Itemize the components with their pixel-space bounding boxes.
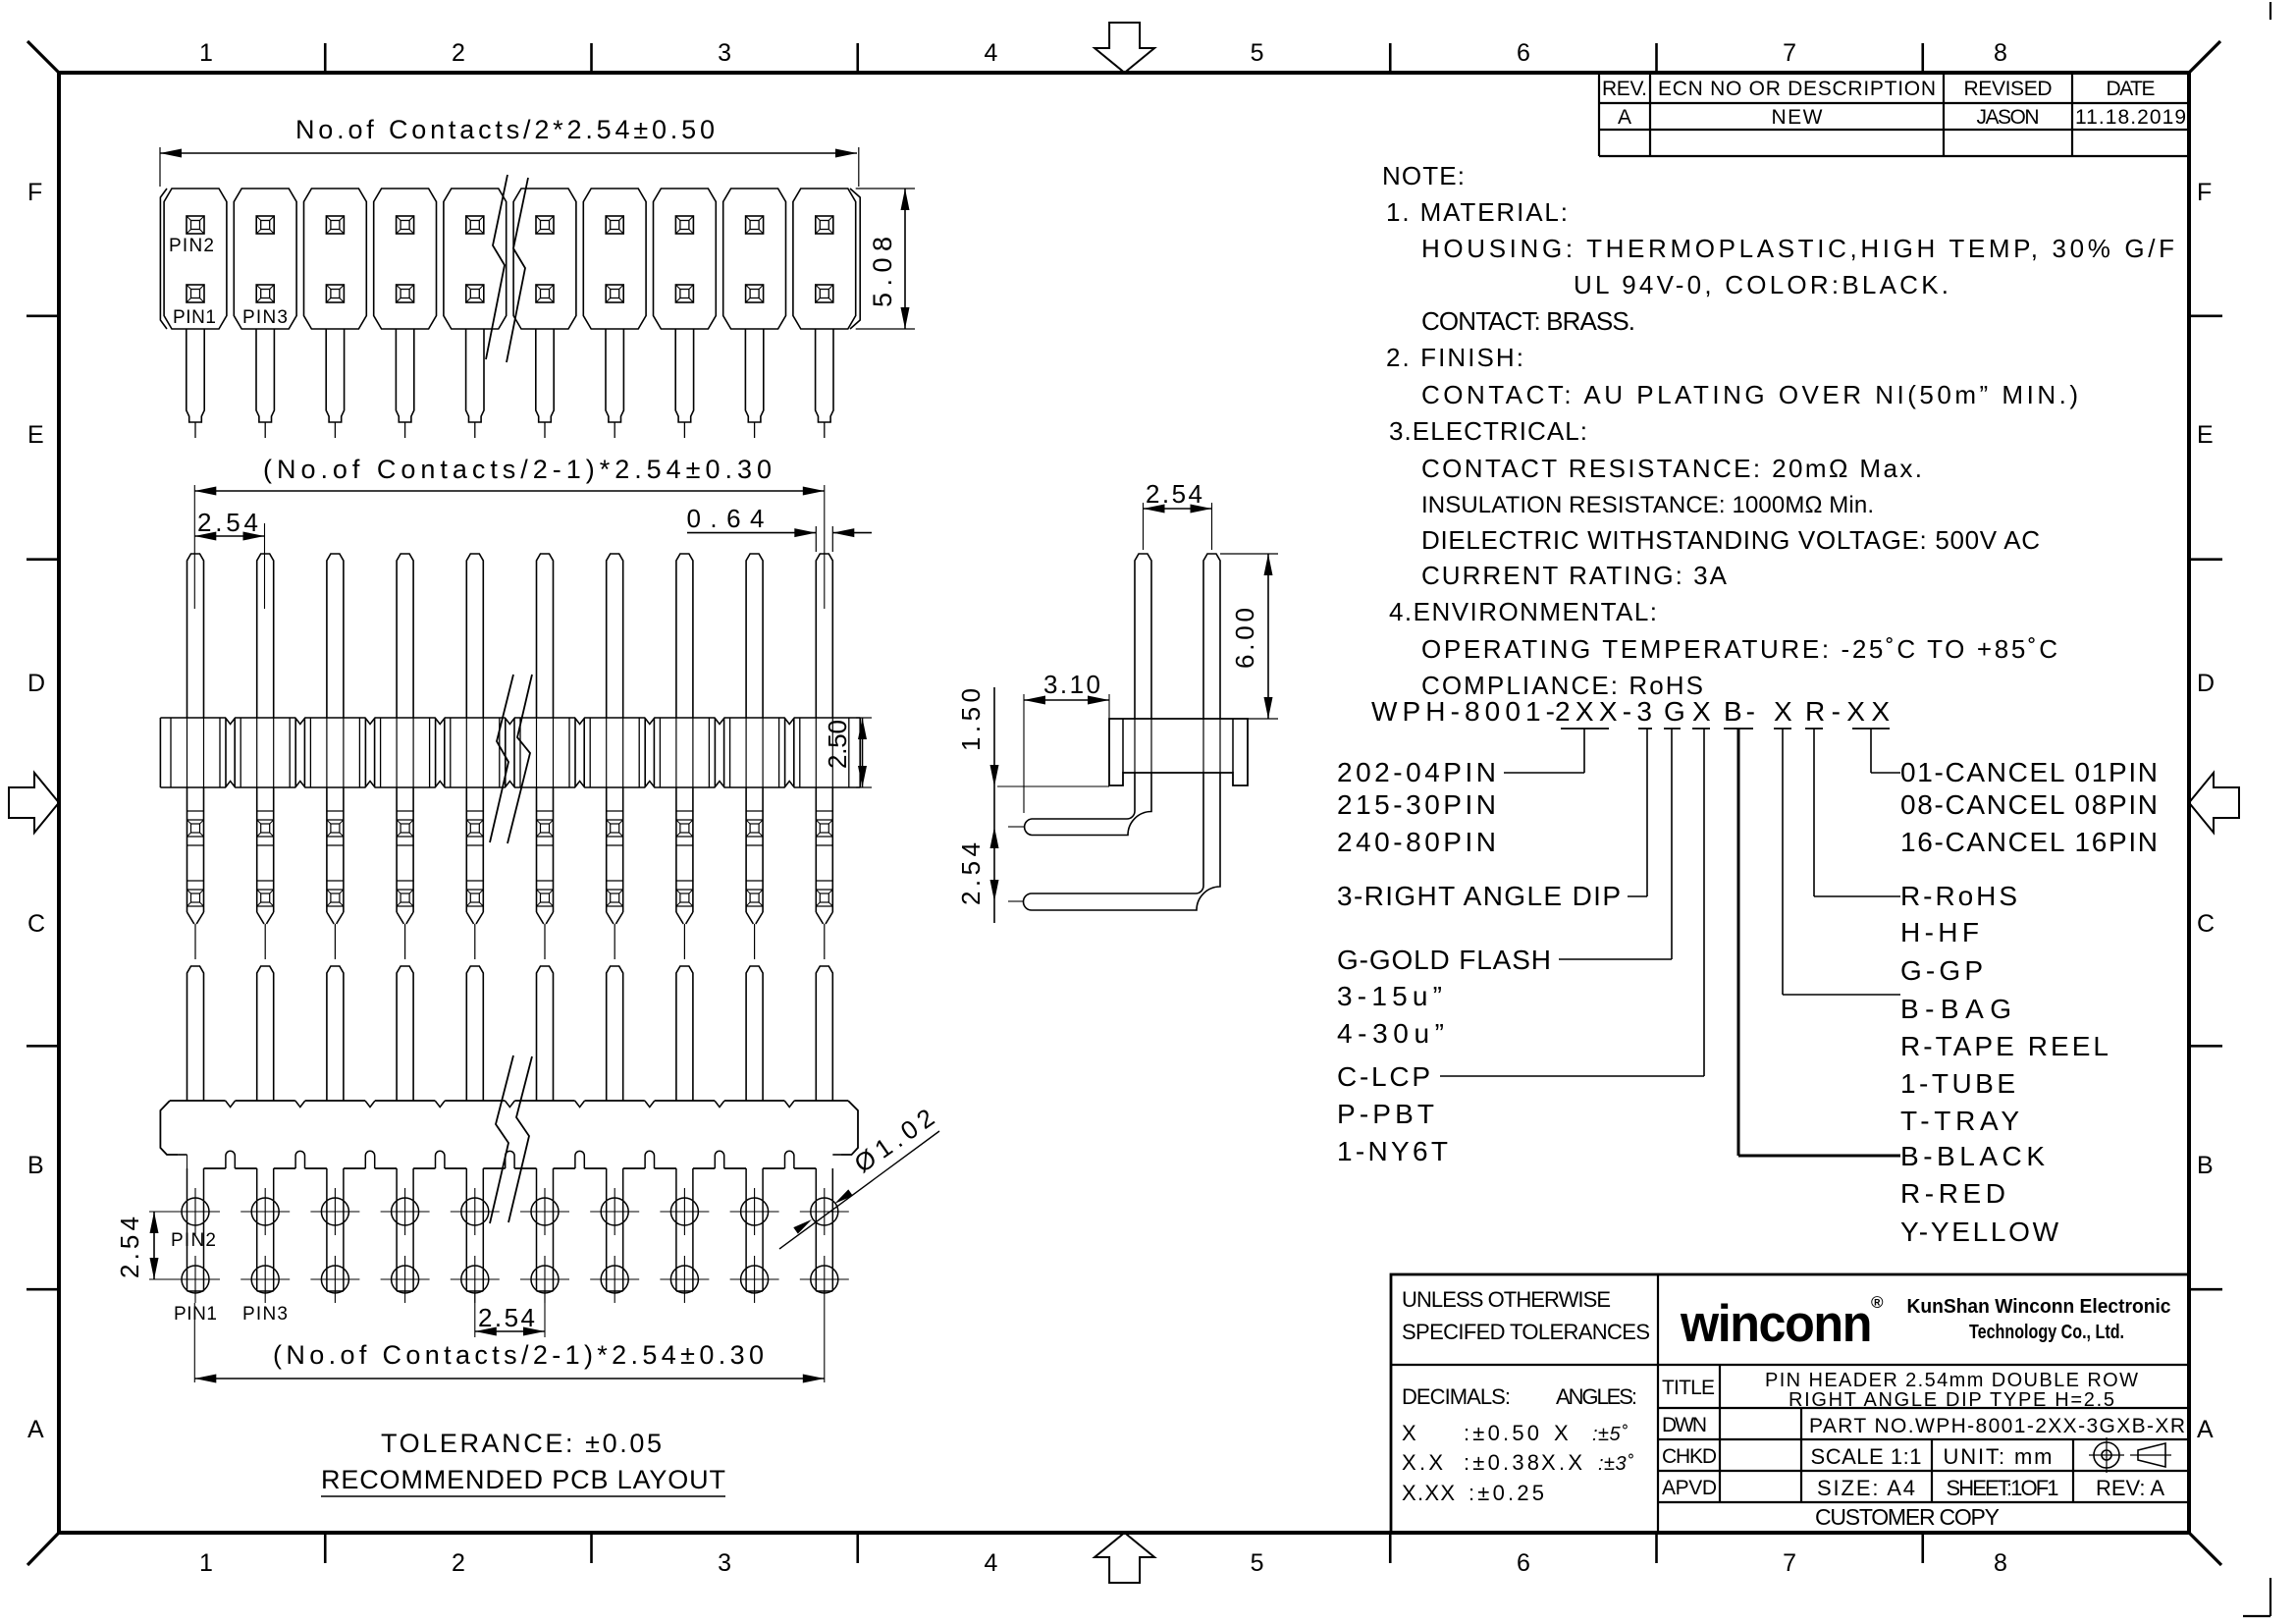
svg-text:3.ELECTRICAL:: 3.ELECTRICAL: [1389, 416, 1587, 446]
svg-text:PIN2: PIN2 [171, 1230, 216, 1251]
svg-text:2. FINISH:: 2. FINISH: [1386, 343, 1523, 372]
svg-text:5: 5 [1251, 1549, 1264, 1577]
svg-text:winconn: winconn [1680, 1295, 1871, 1353]
svg-text:3-RIGHT ANGLE DIP: 3-RIGHT ANGLE DIP [1337, 881, 1621, 911]
svg-text:4: 4 [984, 1549, 997, 1577]
svg-text:1. MATERIAL:: 1. MATERIAL: [1386, 197, 1568, 227]
svg-text:B: B [27, 1152, 44, 1179]
svg-text:REV.: REV. [1602, 78, 1647, 100]
svg-text:2.54: 2.54 [956, 842, 986, 905]
svg-text:UNLESS OTHERWISE: UNLESS OTHERWISE [1402, 1287, 1611, 1312]
svg-text:PART NO.WPH-8001-2XX-3GXB-XR: PART NO.WPH-8001-2XX-3GXB-XR [1809, 1415, 2185, 1437]
svg-text:E: E [27, 421, 44, 449]
svg-text:DECIMALS:: DECIMALS: [1402, 1384, 1511, 1409]
svg-text:2: 2 [452, 1549, 465, 1577]
svg-text:REVISED: REVISED [1964, 78, 2053, 100]
svg-text:PIN3: PIN3 [242, 307, 288, 328]
svg-text:1: 1 [199, 1549, 213, 1577]
svg-text:6: 6 [1517, 1549, 1530, 1577]
svg-text:X.X: X.X [1402, 1450, 1443, 1475]
svg-text:B: B [2197, 1152, 2214, 1179]
svg-text:UL 94V-0, COLOR:BLACK.: UL 94V-0, COLOR:BLACK. [1574, 270, 1949, 299]
svg-text:CONTACT: AU PLATING OVER NI(50: CONTACT: AU PLATING OVER NI(50m” MIN.) [1421, 380, 2078, 409]
svg-text:F: F [2197, 179, 2212, 206]
svg-text:DIELECTRIC WITHSTANDING VOLTAG: DIELECTRIC WITHSTANDING VOLTAGE: 500V AC [1421, 525, 2040, 555]
svg-text:R-RED: R-RED [1900, 1178, 2005, 1209]
svg-text:KunShan Winconn Electronic: KunShan Winconn Electronic [1907, 1296, 2171, 1318]
svg-text:PIN3: PIN3 [242, 1304, 288, 1325]
svg-text:B-: B- [1724, 696, 1755, 727]
svg-text:A: A [27, 1416, 44, 1443]
svg-text:4: 4 [984, 39, 997, 67]
svg-text:2.54: 2.54 [1146, 479, 1202, 509]
svg-text:P-PBT: P-PBT [1337, 1099, 1434, 1129]
svg-text:NEW: NEW [1772, 106, 1823, 129]
svg-text:B-BAG: B-BAG [1900, 994, 2011, 1024]
svg-text:1.50: 1.50 [956, 688, 986, 751]
svg-text:PIN HEADER 2.54mm DOUBLE ROW: PIN HEADER 2.54mm DOUBLE ROW [1765, 1370, 2138, 1391]
svg-text:®: ® [1871, 1293, 1884, 1312]
svg-text:REV: A: REV: A [2096, 1476, 2164, 1500]
svg-text:SPECIFED TOLERANCES: SPECIFED TOLERANCES [1402, 1320, 1650, 1344]
svg-text:G-GP: G-GP [1900, 955, 1983, 986]
svg-text:C: C [2197, 910, 2215, 938]
svg-text:5: 5 [1251, 39, 1264, 67]
svg-text:C-LCP: C-LCP [1337, 1061, 1430, 1092]
svg-text:G: G [1664, 696, 1685, 727]
svg-text:R-RoHS: R-RoHS [1900, 881, 2017, 911]
svg-text:C: C [27, 910, 45, 938]
svg-text:JASON: JASON [1977, 106, 2040, 129]
svg-text:CHKD: CHKD [1662, 1445, 1717, 1468]
svg-text:8: 8 [1994, 1549, 2007, 1577]
svg-text:08-CANCEL 08PIN: 08-CANCEL 08PIN [1900, 789, 2158, 820]
svg-text:R-TAPE REEL: R-TAPE REEL [1900, 1031, 2109, 1061]
svg-text:F: F [27, 179, 42, 206]
svg-text:X: X [1554, 1421, 1569, 1445]
svg-text:PIN1: PIN1 [173, 307, 216, 328]
svg-text:TITLE: TITLE [1662, 1377, 1715, 1399]
svg-text:X: X [1402, 1421, 1416, 1445]
svg-text:RIGHT ANGLE DIP TYPE H=2.5: RIGHT ANGLE DIP TYPE H=2.5 [1789, 1389, 2114, 1411]
svg-text:202-04PIN: 202-04PIN [1337, 757, 1496, 787]
svg-text:6.00: 6.00 [1230, 608, 1259, 669]
svg-text:2XX-3: 2XX-3 [1555, 696, 1652, 727]
svg-text:E: E [2197, 421, 2214, 449]
svg-text:4.ENVIRONMENTAL:: 4.ENVIRONMENTAL: [1389, 597, 1657, 626]
svg-text:Technology Co., Ltd.: Technology Co., Ltd. [1969, 1322, 2124, 1343]
svg-text:ANGLES:: ANGLES: [1556, 1384, 1637, 1409]
svg-text:H-HF: H-HF [1900, 917, 1979, 947]
svg-text:R-XX: R-XX [1805, 696, 1890, 727]
svg-text:A: A [2197, 1416, 2214, 1443]
svg-text:SHEET:1OF1: SHEET:1OF1 [1947, 1476, 2059, 1500]
svg-text:SCALE 1:1: SCALE 1:1 [1811, 1444, 1922, 1469]
svg-text:2.50: 2.50 [823, 720, 852, 769]
svg-text:HOUSING: THERMOPLASTIC,HIGH TE: HOUSING: THERMOPLASTIC,HIGH TEMP, 30% G/… [1421, 234, 2174, 263]
svg-text:3.10: 3.10 [1043, 670, 1100, 699]
svg-text:215-30PIN: 215-30PIN [1337, 789, 1496, 820]
svg-text:D: D [2197, 670, 2215, 697]
svg-text:X: X [1774, 696, 1792, 727]
svg-text:A: A [1618, 106, 1631, 129]
svg-text::±3˚: :±3˚ [1598, 1453, 1633, 1475]
svg-text:1: 1 [199, 39, 213, 67]
svg-text:240-80PIN: 240-80PIN [1337, 827, 1496, 857]
svg-text:3: 3 [718, 1549, 731, 1577]
svg-text:01-CANCEL 01PIN: 01-CANCEL 01PIN [1900, 757, 2158, 787]
svg-text:7: 7 [1783, 39, 1796, 67]
svg-text:8: 8 [1994, 39, 2007, 67]
svg-text:3: 3 [718, 39, 731, 67]
svg-text:7: 7 [1783, 1549, 1796, 1577]
svg-text:5.08: 5.08 [868, 237, 897, 307]
svg-text:INSULATION RESISTANCE: 1000MΩ: INSULATION RESISTANCE: 1000MΩ Min. [1421, 492, 1874, 518]
svg-text:2.54: 2.54 [115, 1217, 144, 1278]
svg-text:PIN1: PIN1 [174, 1304, 217, 1325]
svg-text:PIN2: PIN2 [169, 236, 214, 256]
svg-text::±5˚: :±5˚ [1592, 1424, 1628, 1445]
svg-text:RECOMMENDED PCB LAYOUT: RECOMMENDED PCB LAYOUT [321, 1465, 725, 1494]
svg-text:X.XX: X.XX [1402, 1481, 1455, 1505]
svg-text:APVD: APVD [1662, 1477, 1717, 1499]
svg-text:CURRENT RATING: 3A: CURRENT RATING: 3A [1421, 561, 1728, 590]
svg-text:X.X: X.X [1541, 1450, 1582, 1475]
svg-text:G-GOLD FLASH: G-GOLD FLASH [1337, 945, 1551, 975]
svg-text:16-CANCEL 16PIN: 16-CANCEL 16PIN [1900, 827, 2158, 857]
svg-text:2.54: 2.54 [197, 508, 258, 537]
svg-text:2: 2 [452, 39, 465, 67]
svg-text:6: 6 [1517, 39, 1530, 67]
svg-text:DWN: DWN [1662, 1414, 1707, 1436]
svg-text:CONTACT: BRASS.: CONTACT: BRASS. [1421, 306, 1635, 336]
svg-text:ECN NO OR DESCRIPTION: ECN NO OR DESCRIPTION [1658, 78, 1936, 100]
svg-text:Y-YELLOW: Y-YELLOW [1900, 1217, 2059, 1247]
svg-text:D: D [27, 670, 45, 697]
svg-text:DATE: DATE [2107, 78, 2156, 100]
svg-text:CUSTOMER COPY: CUSTOMER COPY [1815, 1504, 2000, 1530]
svg-text:11.18.2019: 11.18.2019 [2075, 106, 2186, 129]
svg-text:NOTE:: NOTE: [1382, 161, 1465, 190]
svg-text:X: X [1692, 696, 1711, 727]
